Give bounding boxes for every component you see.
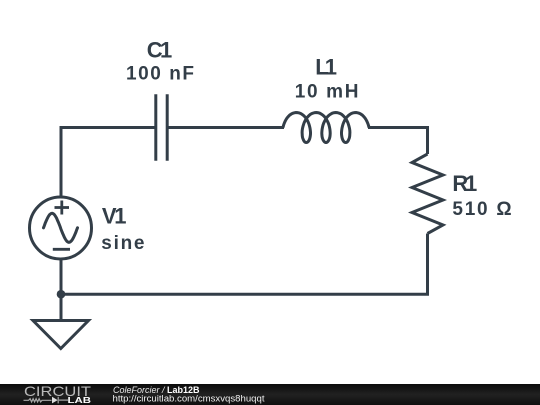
wire L1 to top-right corner down to R1 <box>368 128 428 155</box>
svg-text:100 nF: 100 nF <box>126 63 194 84</box>
inductor L1 <box>283 113 369 143</box>
wire C1 to L1 <box>167 126 284 129</box>
wire V1 bottom to node A <box>60 260 63 295</box>
svg-text:L1: L1 <box>315 54 337 79</box>
wire node A to ground <box>60 294 63 320</box>
wire R1 bottom down and bottom run to node A <box>61 234 428 295</box>
node A junction dot <box>57 290 66 299</box>
svg-text:C1: C1 <box>147 37 173 62</box>
CircuitLab logo resistor-diode squiggle <box>24 397 69 404</box>
wire top-left from V1 top up and right to C1 <box>61 128 156 197</box>
svg-text:V1: V1 <box>102 204 127 229</box>
CircuitLab logo diode triangle <box>52 397 58 404</box>
voltage source V1 <box>30 197 92 259</box>
capacitor C1 <box>156 94 167 161</box>
svg-text:510 Ω: 510 Ω <box>452 199 511 220</box>
svg-text:10 mH: 10 mH <box>295 82 359 103</box>
svg-text:sine: sine <box>101 233 144 254</box>
resistor R1 <box>412 154 443 234</box>
svg-text:R1: R1 <box>452 171 477 196</box>
svg-text:LAB: LAB <box>68 396 92 405</box>
ground <box>33 321 89 349</box>
svg-text:http://circuitlab.com/cmsxvqs8: http://circuitlab.com/cmsxvqs8huqqt <box>113 394 266 404</box>
footer watermark bar <box>0 384 540 405</box>
